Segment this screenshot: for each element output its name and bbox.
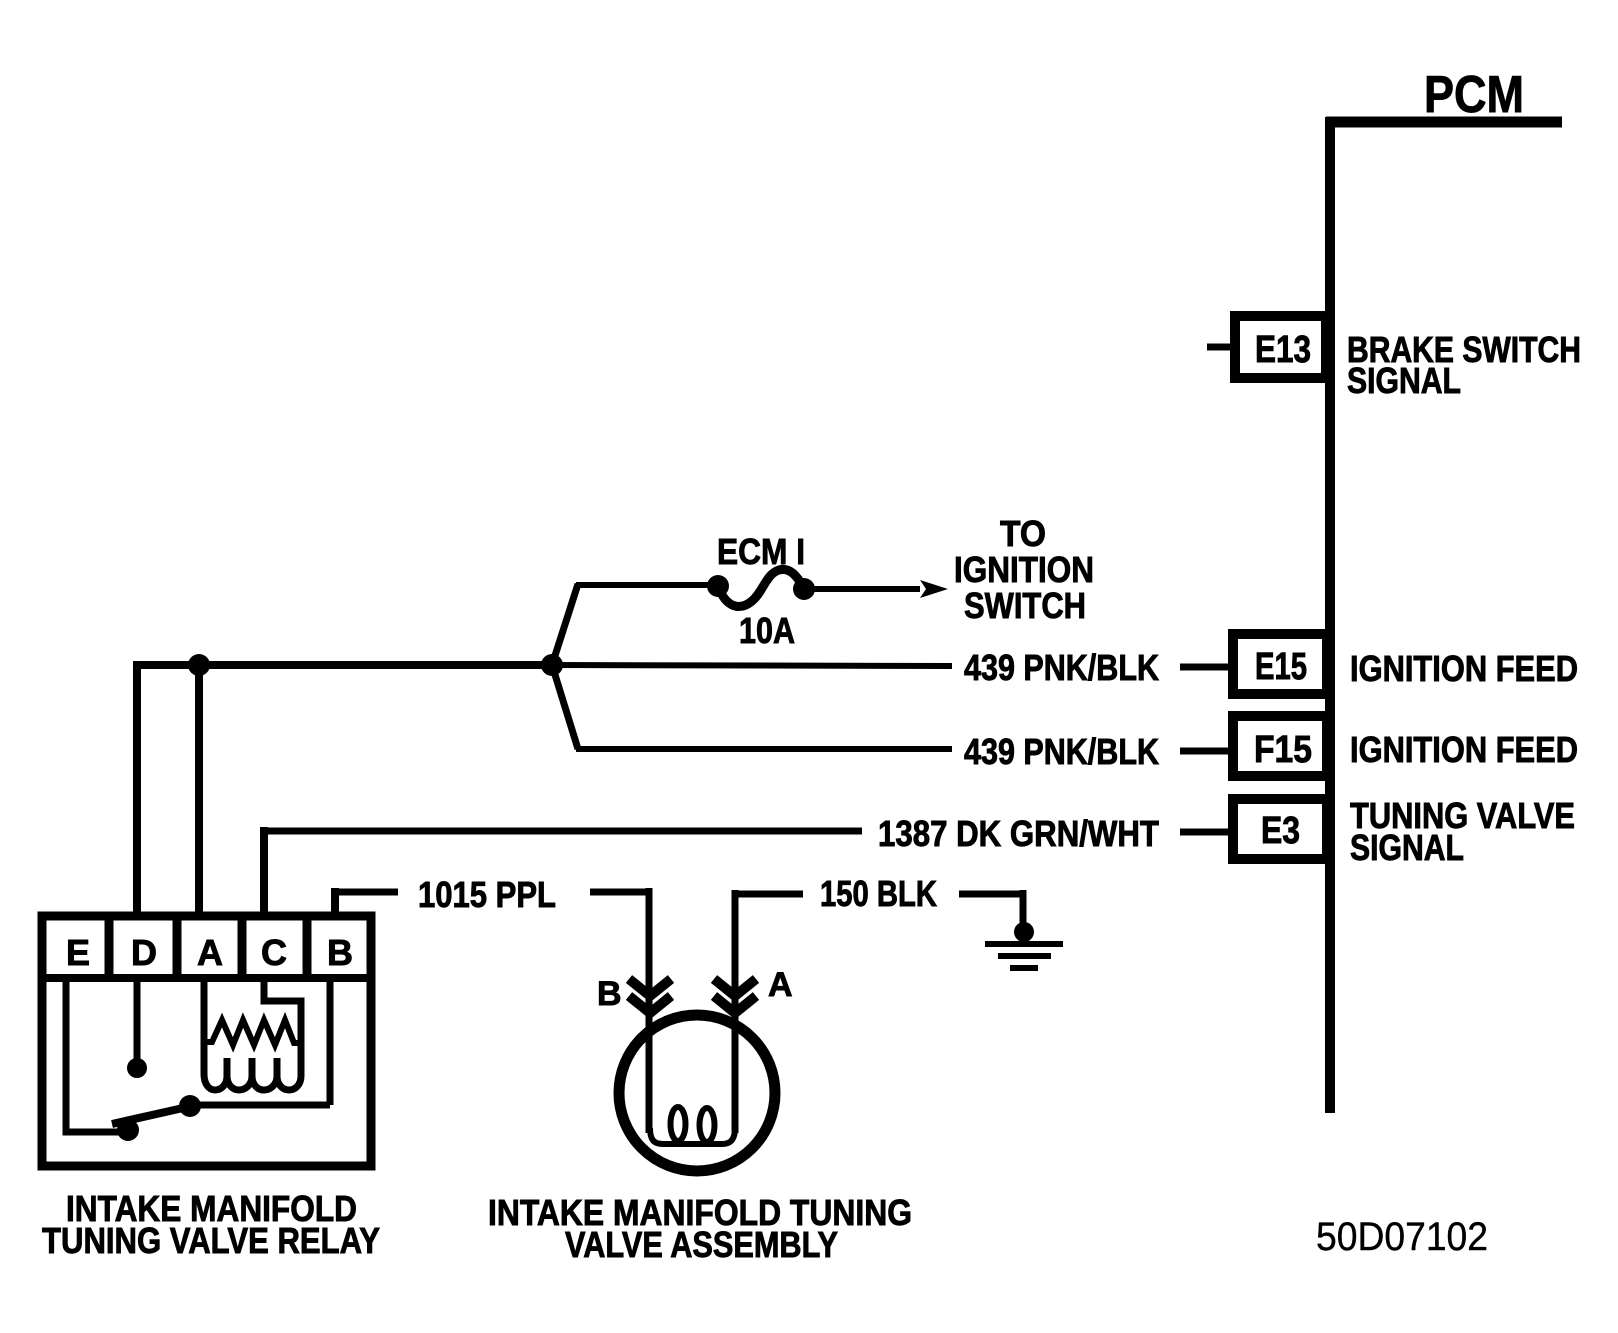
svg-text:C: C — [261, 932, 287, 973]
svg-text:1387 DK GRN/WHT: 1387 DK GRN/WHT — [878, 813, 1159, 854]
svg-text:A: A — [768, 966, 793, 1004]
svg-text:TO: TO — [1000, 513, 1046, 554]
svg-text:IGNITION: IGNITION — [954, 549, 1094, 590]
svg-text:50D07102: 50D07102 — [1316, 1215, 1488, 1259]
svg-text:E13: E13 — [1255, 329, 1311, 371]
svg-text:IGNITION FEED: IGNITION FEED — [1350, 729, 1578, 770]
svg-text:B: B — [327, 932, 353, 973]
svg-text:D: D — [131, 932, 157, 973]
svg-text:SIGNAL: SIGNAL — [1350, 827, 1464, 868]
svg-text:TUNING VALVE RELAY: TUNING VALVE RELAY — [42, 1220, 380, 1261]
svg-text:A: A — [197, 932, 223, 973]
svg-text:B: B — [597, 975, 622, 1013]
svg-text:E3: E3 — [1261, 810, 1300, 852]
svg-text:439 PNK/BLK: 439 PNK/BLK — [964, 647, 1159, 688]
svg-text:IGNITION FEED: IGNITION FEED — [1350, 648, 1578, 689]
svg-text:VALVE ASSEMBLY: VALVE ASSEMBLY — [565, 1224, 838, 1265]
svg-text:F15: F15 — [1254, 729, 1312, 771]
svg-text:E15: E15 — [1255, 646, 1307, 688]
svg-text:PCM: PCM — [1424, 66, 1524, 124]
svg-text:439 PNK/BLK: 439 PNK/BLK — [964, 731, 1159, 772]
svg-text:150 BLK: 150 BLK — [820, 873, 937, 914]
svg-text:1015 PPL: 1015 PPL — [418, 874, 556, 915]
svg-text:10A: 10A — [739, 610, 795, 651]
svg-text:SIGNAL: SIGNAL — [1347, 360, 1461, 401]
svg-text:E: E — [66, 932, 90, 973]
svg-text:ECM I: ECM I — [717, 531, 805, 572]
svg-text:SWITCH: SWITCH — [964, 585, 1086, 626]
